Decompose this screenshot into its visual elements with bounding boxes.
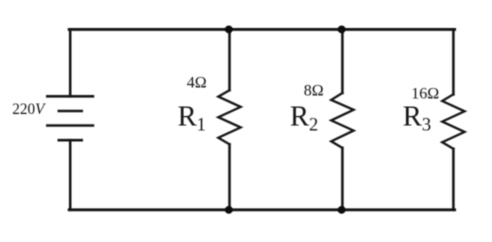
wire top rail <box>69 28 454 31</box>
wire R3 branch top <box>452 29 455 94</box>
svg-text:R2: R2 <box>290 102 318 136</box>
svg-text:16Ω: 16Ω <box>411 86 439 103</box>
svg-text:220V: 220V <box>12 99 46 118</box>
battery plate long top <box>47 95 93 98</box>
node junction dot top R1 <box>225 26 233 34</box>
wire R2 branch bottom <box>341 148 344 210</box>
svg-text:4Ω: 4Ω <box>187 74 207 91</box>
wire battery branch bottom <box>69 140 72 210</box>
battery plate short <box>59 110 82 113</box>
svg-text:8Ω: 8Ω <box>304 83 324 100</box>
battery plate short bottom <box>59 139 82 142</box>
wire R2 branch top <box>341 29 344 93</box>
wire battery branch top <box>69 29 72 96</box>
battery V1 220V <box>47 96 93 140</box>
svg-text:R1: R1 <box>178 102 206 136</box>
wire bottom rail <box>69 208 454 211</box>
resistor R1 zigzag <box>218 90 240 144</box>
wire R1 branch bottom <box>228 144 231 210</box>
svg-text:R3: R3 <box>403 102 431 136</box>
wire R1 branch top <box>228 29 231 90</box>
node junction dot top R2 <box>338 26 346 34</box>
node junction dot bottom R2 <box>338 206 346 214</box>
resistor R3 zigzag <box>442 94 464 149</box>
battery plate long <box>47 124 93 127</box>
wire R3 branch bottom <box>452 149 455 210</box>
resistor R2 zigzag <box>331 93 353 148</box>
node junction dot bottom R1 <box>225 206 233 214</box>
